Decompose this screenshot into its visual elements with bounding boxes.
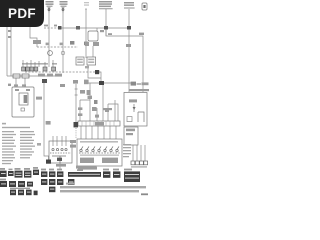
indicator box inner mark xyxy=(143,5,145,8)
wire right out 1 xyxy=(132,145,134,161)
fuse tick marks on feed wire xyxy=(75,89,78,95)
connector icon r3c4 xyxy=(34,191,38,196)
connector symbol on bus at x59 xyxy=(58,26,62,30)
column C label xyxy=(57,169,62,171)
icon label r1c10 xyxy=(113,169,119,171)
connector icon r1c9 xyxy=(103,171,110,177)
motor M1 inner element xyxy=(24,95,28,103)
fuse F1 symbol xyxy=(48,8,51,12)
label 1.5B upper xyxy=(36,97,42,100)
label wire 1.5 right bus xyxy=(87,90,91,95)
arrow to in-line connector xyxy=(131,82,136,86)
relay sub label right xyxy=(93,42,99,46)
wire detail box stub 3 xyxy=(61,136,63,146)
wire strip to switch box p3 xyxy=(91,126,93,139)
pin labels inside hazard box xyxy=(80,141,118,143)
label text battery block xyxy=(99,1,112,3)
label tiny mid bus xyxy=(54,25,57,27)
diode triangle xyxy=(133,107,136,110)
wire strip to switch box p7 xyxy=(115,126,117,139)
connector symbol node C-30 xyxy=(95,70,99,74)
connector icon r3c3 xyxy=(26,190,32,196)
wire detail box stub 2 xyxy=(56,136,58,146)
icon label r2c1 xyxy=(0,179,6,181)
labels under connector caps xyxy=(131,166,147,167)
connector icon r1c5 xyxy=(33,170,39,175)
svg-text:PDF: PDF xyxy=(8,6,36,21)
connector icon colC box2 xyxy=(57,179,63,185)
wire branch loop left xyxy=(80,100,90,121)
relay box inner row 1 xyxy=(126,129,135,132)
icon label r1c3 xyxy=(15,168,21,170)
small box inside diode unit xyxy=(127,117,132,122)
icon label r1c5 xyxy=(33,167,38,169)
connector row box 5 xyxy=(43,67,47,71)
label right mid 2 xyxy=(103,108,112,110)
label left of x106 elbow xyxy=(100,30,104,32)
legend column 2 rows xyxy=(20,131,34,132)
wire strip to switch box p5 xyxy=(103,126,105,139)
wire from alternator label xyxy=(128,9,130,83)
connector icon r3c2 xyxy=(18,190,24,196)
wire strip to switch box p2 xyxy=(85,126,87,139)
wire elbow from badge area xyxy=(30,27,37,47)
label under relay K2 xyxy=(85,66,89,68)
motor M1 outer box xyxy=(12,87,34,117)
PDF badge xyxy=(0,0,44,27)
pin label column for out wires xyxy=(123,144,131,157)
label pin motor 2 xyxy=(22,84,26,86)
label 1.5B mid xyxy=(60,84,65,87)
label 1.5B lower xyxy=(46,121,51,125)
right out connector cap 2 xyxy=(135,161,139,165)
connector on feed wire top xyxy=(73,80,78,84)
icon label r1c9 xyxy=(103,169,109,171)
label motor top right xyxy=(26,89,30,91)
small dark mark on wire x96 xyxy=(94,100,98,104)
label text top fuse F2 xyxy=(60,1,68,3)
connector row box 2 xyxy=(26,67,30,71)
connector icon r1c4 xyxy=(24,171,31,178)
wire into motor M1 pin2 xyxy=(24,78,26,87)
detail box inner mark xyxy=(57,158,62,161)
wire from fuse F3 xyxy=(85,13,87,58)
legend header row xyxy=(2,127,30,128)
label B near 1.5B wire xyxy=(37,143,41,146)
label wire size near x7 xyxy=(8,30,11,32)
right outline box (diode unit) xyxy=(124,93,147,127)
relay sub label left xyxy=(85,42,89,46)
wire into right relay box xyxy=(128,83,130,92)
wire from battery label xyxy=(105,9,107,36)
label F-22 on elbow xyxy=(33,40,41,44)
icon label r1c11 xyxy=(124,169,132,171)
wire strip to switch box p4 xyxy=(97,126,99,139)
connector row box 4 xyxy=(34,67,38,71)
pin number row above connector boxes xyxy=(22,63,48,65)
legend title LG xyxy=(2,123,6,125)
label text top fuse F1 xyxy=(46,1,54,3)
dotted wire into hazard box corner xyxy=(75,128,77,139)
wire right out 4 xyxy=(144,145,146,161)
small marks on wires at y43 xyxy=(46,43,49,46)
detail box dashed line xyxy=(50,152,71,154)
hazard switch box xyxy=(77,139,122,166)
connector icon r2c3 xyxy=(18,181,25,187)
wire branch loop xyxy=(108,104,118,121)
wire into motor M1 xyxy=(15,78,17,87)
junction block dashed top edge xyxy=(37,46,78,48)
connector icon long bar C-23 xyxy=(68,172,101,177)
wire hazard feed 3 xyxy=(114,100,116,121)
bottom connector icons xyxy=(0,166,140,196)
wire hazard feed 1 xyxy=(89,83,91,121)
connector icon r1c1 xyxy=(0,171,7,177)
connector pair symbol left 2 xyxy=(22,74,29,78)
icon label r3 row xyxy=(10,188,30,189)
legend column 1 rows xyxy=(2,131,14,132)
wire strip to switch box p1 xyxy=(80,126,82,139)
fuse F2 symbol xyxy=(62,8,65,12)
icon label r1c1 xyxy=(0,168,5,170)
connector icon r2c1 xyxy=(0,181,7,187)
wire left vertical A xyxy=(6,27,8,76)
connector icon below bar xyxy=(68,179,74,185)
relay K1 box xyxy=(76,57,84,65)
connector pair symbol left 1 xyxy=(13,74,20,78)
label near strip feed 1 xyxy=(78,107,82,110)
connector icon r1c2 xyxy=(9,169,13,171)
wire from fuse F2 xyxy=(62,12,64,73)
page number bottom right xyxy=(141,193,148,195)
label above y36 line xyxy=(108,33,112,35)
diode symbol lead xyxy=(133,104,135,112)
diode loop branch xyxy=(138,112,144,122)
motor M1 inner frame xyxy=(19,93,28,105)
connector strip dividers xyxy=(82,121,114,126)
relay box inner row 2 xyxy=(126,133,133,135)
hazard box label left xyxy=(80,158,94,163)
label near strip feed 1b xyxy=(78,113,82,116)
connector icon r2c2 xyxy=(9,181,16,187)
label row above y76 wire xyxy=(38,74,45,77)
column switch detail box xyxy=(49,141,72,163)
wire strip feed x97 xyxy=(96,108,98,121)
icon label long bar xyxy=(77,169,83,171)
label tiny left of dashed bus xyxy=(44,25,48,27)
connector symbol on 1.5B wire xyxy=(42,79,47,83)
label B near left edge xyxy=(8,84,11,86)
arrow text right 2 xyxy=(129,89,149,91)
hazard box label right xyxy=(102,158,118,163)
bus wire right y83 xyxy=(86,82,131,84)
connector icon colB box2 xyxy=(49,179,55,185)
small dark box on wire x72 xyxy=(70,41,74,45)
wire right out 3 xyxy=(140,145,142,161)
wire feed left of hazard area xyxy=(75,84,77,122)
wire right out 2 xyxy=(136,145,138,161)
connector icon colB box3 xyxy=(49,187,55,193)
wire elbow to fusible link xyxy=(106,28,143,92)
caption bar above long connector xyxy=(76,166,96,169)
connector on feed wire at strip xyxy=(74,122,79,127)
label pin motor 1 xyxy=(14,84,18,86)
label near strip feed 2 xyxy=(92,107,97,111)
connector icon colB box1 xyxy=(49,171,55,177)
connector icon r1c10 xyxy=(113,171,120,177)
label diode area xyxy=(129,99,137,102)
right out connector cap 4 xyxy=(144,161,148,165)
connector row box 1 xyxy=(22,67,26,71)
wire left vertical B xyxy=(10,27,12,76)
fuse F3 symbol xyxy=(85,9,87,13)
motor M1 lower mark xyxy=(21,108,24,111)
strip gray section xyxy=(95,122,104,125)
connector strip C-23 xyxy=(78,121,120,126)
label motor top left xyxy=(15,89,19,91)
label left of strip xyxy=(95,115,99,118)
icon label r1c4 xyxy=(24,168,30,170)
label text top fuse F3 xyxy=(84,2,89,3)
right out connector cap 1 xyxy=(131,161,135,165)
hazard box caption below xyxy=(78,167,97,170)
connector icon r1c3 xyxy=(15,171,23,178)
wire detail box stub 1 xyxy=(52,136,54,146)
connector icon r1c11 big xyxy=(124,171,140,182)
labels left of hazard box xyxy=(70,140,76,143)
label near fusible link xyxy=(139,33,144,35)
connector icon r3c1 xyxy=(10,190,16,196)
wire stub into component U1 xyxy=(96,28,98,31)
remark text line 2 xyxy=(60,190,139,192)
label text alternator underline xyxy=(124,7,135,10)
wire relay to node xyxy=(88,65,101,78)
wire strip to switch box p6 xyxy=(109,126,111,139)
wire node to strip xyxy=(99,72,101,83)
indicator box top right xyxy=(142,3,147,10)
remark text line 1 xyxy=(60,186,146,188)
label on wire x129 xyxy=(126,44,131,47)
relay K2 box xyxy=(87,57,96,65)
connector icon colC box1 xyxy=(57,171,63,177)
column A label xyxy=(41,169,46,171)
connector row box 3 xyxy=(30,67,34,71)
wire detail box ground lead xyxy=(59,163,61,169)
arrow line with head xyxy=(137,83,141,86)
label text battery underline xyxy=(99,7,113,10)
arrow text right 1 xyxy=(142,82,149,85)
bus wire dashed segment xyxy=(44,27,58,29)
connector symbol on bus at x76 xyxy=(76,26,80,30)
wire U1 to relay K2 xyxy=(92,46,94,57)
wire detail box stub 4 xyxy=(65,136,67,146)
connector row box 6 xyxy=(52,67,56,71)
right out connector cap 3 xyxy=(140,161,144,165)
detail box contacts xyxy=(52,149,67,164)
connector symbol on bus at x127 xyxy=(127,26,131,30)
component U1 box xyxy=(88,31,98,41)
bus wire solid segment xyxy=(61,27,131,29)
hazard switch dashed line xyxy=(79,152,120,154)
diamond junction on wire x49 xyxy=(48,51,53,56)
small dark box on wire x86 xyxy=(84,42,88,46)
wire hazard feed 2 xyxy=(102,83,104,121)
connector hook on wire x63 xyxy=(61,51,65,55)
connector icon colA box2 xyxy=(41,179,47,185)
wire 1.5B long vertical xyxy=(44,83,49,160)
hazard switch contacts xyxy=(80,146,119,151)
remark label xyxy=(66,183,74,185)
label right of feed fuse xyxy=(80,90,85,94)
label text alternator block xyxy=(124,2,134,4)
right solid relay box xyxy=(124,127,138,145)
pin tick marks above connector row xyxy=(23,60,53,67)
junction block dashed bottom edge xyxy=(25,71,97,73)
connector symbol on y83 bus xyxy=(99,81,104,85)
connector icon r2c4 xyxy=(27,182,33,187)
wire from fuse F1 xyxy=(48,12,50,67)
label gray box under relay wire xyxy=(84,80,89,85)
label near strip feed 3 xyxy=(105,108,109,112)
pin number row inside hazard box xyxy=(80,154,119,156)
connector symbol on bus at x104 xyxy=(104,26,108,30)
detail box caption xyxy=(56,164,66,167)
label right mid 1 xyxy=(88,96,93,99)
horizontal wire y76 xyxy=(7,75,62,77)
connector icon colA box1 xyxy=(41,171,47,177)
column B label xyxy=(49,169,54,171)
connector end cap of 1.5B wire xyxy=(46,160,51,164)
